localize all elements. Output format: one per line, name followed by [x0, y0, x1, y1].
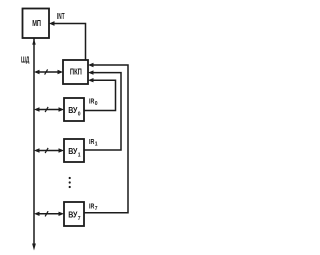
wire IR7 from ВУ7 to ПКП [84, 63, 128, 213]
wire INT from ПКП top to МП right [49, 21, 86, 60]
svg-text:ШД: ШД [21, 54, 29, 64]
svg-text:1: 1 [95, 142, 98, 148]
wire IR0 from ВУ0 to ПКП [84, 78, 116, 111]
ellipsis between ВУ1 and ВУ7 [69, 177, 71, 188]
svg-text:0: 0 [78, 111, 81, 117]
wire IR1 from ВУ1 to ПКП [84, 70, 121, 150]
svg-text:IR: IR [89, 99, 94, 106]
label ПКП [70, 68, 82, 77]
svg-text:ПКП: ПКП [70, 68, 82, 77]
bus connector wire to ВУ1 [34, 148, 64, 153]
label IR0 [89, 99, 98, 108]
svg-text:7: 7 [95, 206, 98, 212]
label ШД [21, 54, 29, 64]
interrupt controller box ПКП [63, 60, 88, 84]
device box ВУ7 [64, 202, 84, 226]
svg-text:ВУ: ВУ [68, 147, 78, 156]
svg-text:INT: INT [57, 12, 65, 21]
label IR1 [89, 139, 98, 148]
svg-text:7: 7 [78, 216, 81, 222]
label INT [57, 12, 65, 21]
svg-text:1: 1 [78, 152, 81, 158]
bus connector wire to ВУ0 [34, 107, 64, 112]
label IR7 [89, 203, 98, 212]
svg-text:ВУ: ВУ [68, 106, 78, 115]
data bus ШД vertical wire [32, 39, 36, 251]
device box ВУ0 [64, 98, 84, 121]
label ВУ7 [68, 211, 81, 222]
label ВУ1 [68, 147, 81, 158]
svg-text:IR: IR [89, 203, 94, 210]
svg-text:МП: МП [32, 18, 41, 28]
svg-text:0: 0 [95, 101, 98, 107]
bus connector wire to ПКП [34, 69, 63, 74]
device box ВУ1 [64, 139, 84, 162]
svg-text:IR: IR [89, 139, 94, 146]
label МП [32, 18, 41, 28]
label ВУ0 [68, 106, 81, 117]
microprocessor box МП [23, 9, 50, 39]
svg-text:ВУ: ВУ [68, 211, 78, 220]
bus connector wire to ВУ7 [34, 211, 64, 216]
